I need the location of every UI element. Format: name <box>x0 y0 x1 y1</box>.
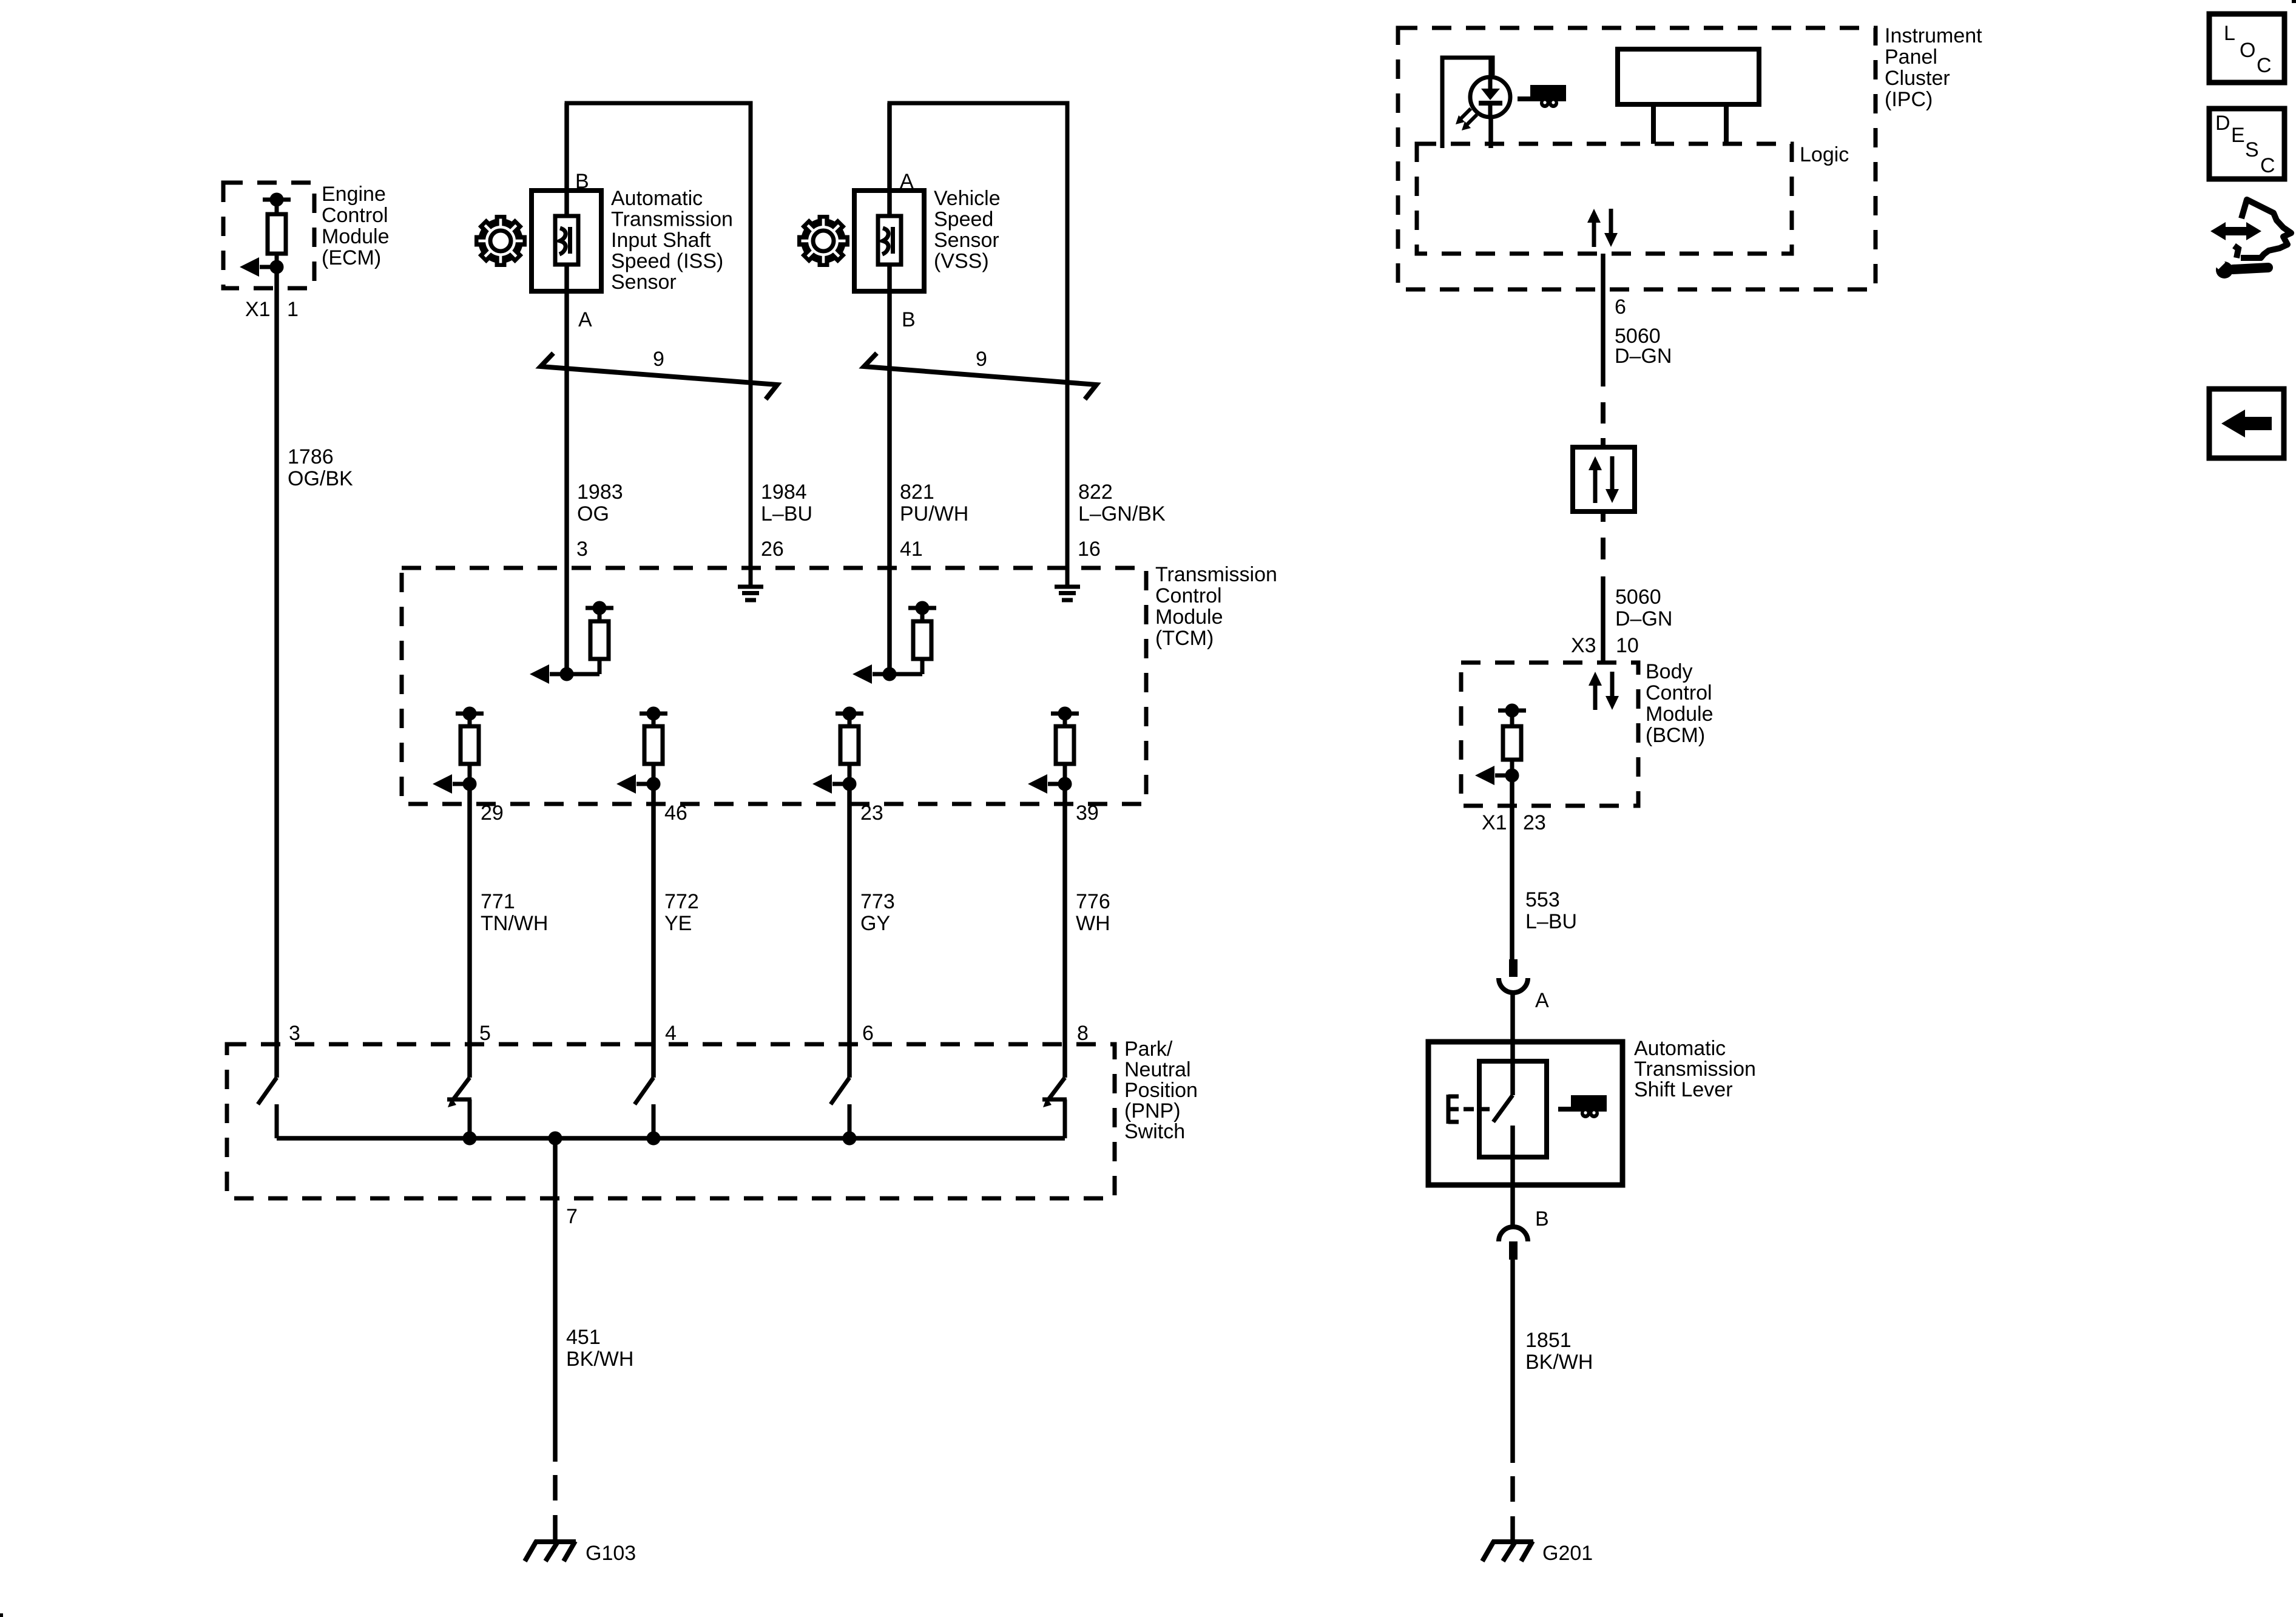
TCM dashed box <box>402 568 1146 804</box>
svg-text:C: C <box>2257 54 2272 77</box>
svg-text:Neutral: Neutral <box>1124 1058 1191 1081</box>
resistor inside BCM <box>1475 706 1526 785</box>
light arrows into photodiode <box>1456 109 1477 130</box>
svg-text:S: S <box>2245 138 2259 161</box>
IPC gauge rectangle <box>1618 49 1759 104</box>
ECM dashed box <box>223 183 314 288</box>
svg-text:(IPC): (IPC) <box>1885 88 1933 111</box>
svg-text:Sensor: Sensor <box>611 271 677 294</box>
inline connector B (male pin) <box>1509 1241 1518 1260</box>
svg-text:B: B <box>1535 1207 1549 1230</box>
svg-text:Module: Module <box>322 225 390 248</box>
inline connector B (female half circle) <box>1499 1227 1528 1241</box>
svg-text:D: D <box>2215 112 2230 135</box>
svg-text:YE: YE <box>664 912 692 935</box>
svg-text:9: 9 <box>653 348 664 371</box>
wire 5060 D-GN to BCM X3 10 <box>1601 576 1606 663</box>
resistor inside TCM at pin 3 <box>530 603 613 684</box>
svg-text:X1: X1 <box>1482 811 1507 834</box>
svg-text:G103: G103 <box>586 1542 636 1565</box>
switch contact PNP pin 3 <box>258 1078 277 1138</box>
page mark bottom left <box>0 1613 3 1617</box>
wire through photodiode <box>1488 58 1493 148</box>
PNP common bus wire <box>277 1136 1065 1141</box>
svg-text:1983: 1983 <box>577 481 623 504</box>
svg-text:BK/WH: BK/WH <box>1525 1351 1593 1374</box>
dashed wire to G201 <box>1510 1463 1515 1541</box>
wire 776 WH from TCM 39 to PNP 8 <box>1062 784 1067 1078</box>
junction dot bus/pin6 <box>845 1133 854 1143</box>
mechanical linkage symbol E <box>1448 1095 1490 1124</box>
Logic dashed box <box>1417 144 1792 254</box>
svg-text:E: E <box>2231 124 2245 147</box>
svg-text:D–GN: D–GN <box>1615 607 1672 630</box>
svg-text:23: 23 <box>860 802 883 825</box>
photodiode triangle and cathode <box>1481 89 1500 100</box>
svg-text:Control: Control <box>1155 584 1222 607</box>
gauge legs <box>1651 104 1656 144</box>
svg-text:C: C <box>2260 154 2275 177</box>
photo sensor housing <box>1442 58 1493 148</box>
svg-text:(PNP): (PNP) <box>1124 1099 1181 1122</box>
shift lever switch inner box <box>1479 1061 1547 1157</box>
svg-text:Speed: Speed <box>934 208 993 231</box>
svg-text:TN/WH: TN/WH <box>481 912 548 935</box>
back arrow icon box <box>2209 389 2284 458</box>
wire 451 BK/WH from PNP pin 7 <box>553 1138 558 1462</box>
resistor inside TCM at pin 41 <box>853 603 936 684</box>
svg-text:821: 821 <box>900 481 934 504</box>
double arrow + hand + wrench icon <box>2210 200 2291 279</box>
svg-text:9: 9 <box>976 348 987 371</box>
LOC icon box <box>2209 14 2284 83</box>
switch contact PNP pin 4 <box>635 1078 653 1138</box>
switch contact PNP pin 8 <box>1042 1078 1067 1138</box>
svg-text:Instrument: Instrument <box>1885 24 1982 47</box>
svg-text:Automatic: Automatic <box>1634 1037 1726 1060</box>
wire ISS loop top and right side (1984) <box>567 103 751 586</box>
wire ISS pin B loop vertical <box>564 103 569 674</box>
wire VSS pin A loop vertical (821) <box>887 103 892 674</box>
svg-text:5060: 5060 <box>1615 586 1661 609</box>
resistor inside TCM above pin 46 <box>616 709 667 794</box>
gear icon (VSS) <box>797 215 849 267</box>
svg-text:Control: Control <box>322 204 388 227</box>
wire 771 TN/WH from TCM 29 to PNP 5 <box>467 784 472 1078</box>
wire 773 GY from TCM 23 to PNP 6 <box>847 784 852 1078</box>
svg-text:L–BU: L–BU <box>1525 910 1577 933</box>
VSS sensor box <box>854 191 924 291</box>
svg-text:O: O <box>2240 39 2255 62</box>
page mark top right <box>2292 0 2296 3</box>
svg-text:39: 39 <box>1076 802 1099 825</box>
svg-text:772: 772 <box>664 890 699 913</box>
wire 1851 BK/WH <box>1510 1260 1515 1463</box>
svg-text:Transmission: Transmission <box>1155 563 1277 586</box>
svg-text:Module: Module <box>1646 703 1714 726</box>
svg-text:1984: 1984 <box>761 481 807 504</box>
svg-text:Engine: Engine <box>322 183 386 206</box>
svg-text:3: 3 <box>576 538 588 561</box>
wire 772 YE from TCM 46 to PNP 4 <box>651 784 656 1078</box>
svg-text:G201: G201 <box>1542 1542 1593 1565</box>
svg-text:29: 29 <box>481 802 504 825</box>
Automatic Transmission Shift Lever box <box>1428 1042 1622 1185</box>
gear icon (ISS) <box>474 215 527 267</box>
svg-text:Switch: Switch <box>1124 1120 1185 1143</box>
svg-text:1851: 1851 <box>1525 1329 1572 1352</box>
dashed wire to G103 <box>553 1462 558 1541</box>
svg-text:Transmission: Transmission <box>1634 1058 1756 1081</box>
svg-text:WH: WH <box>1076 912 1110 935</box>
ground symbol inside TCM (pin 26) <box>738 587 763 600</box>
svg-text:(ECM): (ECM) <box>322 246 381 269</box>
twisted pair symbol 9 (ISS wires) <box>541 353 777 399</box>
twisted pair symbol 9 (VSS wires) <box>864 353 1096 399</box>
svg-text:OG: OG <box>577 502 609 525</box>
shift lever switch lower contact <box>1510 1126 1515 1185</box>
svg-text:(BCM): (BCM) <box>1646 724 1705 747</box>
svg-text:Shift Lever: Shift Lever <box>1634 1078 1733 1101</box>
svg-text:553: 553 <box>1525 888 1560 911</box>
svg-text:8: 8 <box>1077 1022 1089 1045</box>
inline connector A (male pin) <box>1509 959 1518 977</box>
svg-text:Control: Control <box>1646 681 1712 704</box>
svg-text:L–GN/BK: L–GN/BK <box>1078 502 1166 525</box>
wire 553 L-BU from BCM X1 23 <box>1510 778 1514 959</box>
svg-text:451: 451 <box>566 1326 601 1349</box>
svg-text:3: 3 <box>289 1022 300 1045</box>
wire into shift lever switch <box>1510 1044 1515 1095</box>
svg-text:A: A <box>900 170 914 193</box>
inline connector A (female half circle) <box>1499 978 1528 993</box>
trailer icon (IPC odometer) <box>1518 85 1566 108</box>
svg-text:(TCM): (TCM) <box>1155 627 1214 650</box>
svg-text:Position: Position <box>1124 1079 1198 1102</box>
switch contact PNP pin 6 <box>831 1078 849 1138</box>
svg-text:4: 4 <box>665 1022 677 1045</box>
svg-text:L: L <box>2224 22 2235 45</box>
svg-text:41: 41 <box>900 538 923 561</box>
svg-text:5: 5 <box>479 1022 491 1045</box>
serial data arrows inside Logic <box>1587 209 1618 247</box>
ISS sensor box <box>532 191 601 291</box>
svg-text:Input Shaft: Input Shaft <box>611 229 711 252</box>
svg-text:7: 7 <box>566 1205 578 1228</box>
svg-text:Speed (ISS): Speed (ISS) <box>611 250 723 273</box>
wire from shift lever to connector B <box>1510 1185 1515 1227</box>
svg-text:Body: Body <box>1646 660 1693 683</box>
ground G201 symbol <box>1482 1541 1533 1561</box>
svg-text:26: 26 <box>761 538 784 561</box>
svg-text:Cluster: Cluster <box>1885 67 1950 90</box>
svg-text:Logic: Logic <box>1800 143 1849 166</box>
svg-text:B: B <box>902 308 916 331</box>
wire from connector A to shift lever <box>1510 993 1515 1044</box>
resistor inside TCM above pin 23 <box>812 709 863 794</box>
svg-text:L–BU: L–BU <box>761 502 812 525</box>
svg-text:BK/WH: BK/WH <box>566 1348 633 1371</box>
arrows inside serial data link box <box>1589 456 1619 503</box>
DESC icon box <box>2209 109 2284 179</box>
svg-text:Sensor: Sensor <box>934 229 999 252</box>
svg-text:6: 6 <box>862 1022 874 1045</box>
svg-text:771: 771 <box>481 890 515 913</box>
ground symbol inside TCM (pin 16) <box>1055 587 1080 600</box>
svg-text:Automatic: Automatic <box>611 187 703 210</box>
svg-text:Transmission: Transmission <box>611 208 733 231</box>
svg-text:PU/WH: PU/WH <box>900 502 968 525</box>
svg-text:Vehicle: Vehicle <box>934 187 1001 210</box>
IPC dashed box <box>1398 28 1876 289</box>
svg-text:Park/: Park/ <box>1124 1038 1173 1061</box>
svg-text:X3: X3 <box>1571 634 1596 657</box>
trailer icon (shift lever) <box>1558 1095 1607 1118</box>
svg-text:6: 6 <box>1615 295 1626 319</box>
svg-text:10: 10 <box>1616 634 1639 657</box>
svg-text:GY: GY <box>860 912 890 935</box>
serial data link box <box>1573 447 1635 511</box>
ground G103 symbol <box>525 1541 576 1561</box>
wire 5060 D-GN from IPC pin 6 <box>1601 254 1606 387</box>
shift lever switch blade <box>1493 1095 1513 1122</box>
dashed wire from splice box <box>1601 511 1606 522</box>
resistor inside ECM <box>240 195 291 277</box>
svg-text:776: 776 <box>1076 890 1110 913</box>
PNP dashed box <box>227 1044 1115 1198</box>
svg-text:(VSS): (VSS) <box>934 250 989 273</box>
svg-text:A: A <box>578 308 592 331</box>
wire VSS loop top and right side (822) <box>890 103 1067 586</box>
dashed wire to splice box <box>1601 402 1606 424</box>
svg-text:A: A <box>1535 989 1549 1012</box>
svg-text:B: B <box>575 170 589 193</box>
svg-text:OG/BK: OG/BK <box>288 467 353 490</box>
svg-text:Module: Module <box>1155 606 1223 629</box>
svg-text:1786: 1786 <box>288 445 334 468</box>
junction dot bus/pin4 <box>649 1133 658 1143</box>
resistor inside TCM above pin 39 <box>1028 709 1079 794</box>
svg-text:822: 822 <box>1078 481 1113 504</box>
svg-text:773: 773 <box>860 890 895 913</box>
photodiode circle <box>1470 77 1510 117</box>
wire 1786 OG/BK from ECM pin 1 to PNP pin 3 <box>274 269 279 1078</box>
svg-text:Panel: Panel <box>1885 46 1937 69</box>
BCM dashed box <box>1461 663 1638 806</box>
switch contact PNP pin 5 <box>447 1078 471 1138</box>
svg-text:23: 23 <box>1523 811 1546 834</box>
serial data arrows inside BCM <box>1589 672 1619 710</box>
junction dot bus/pin5 <box>465 1133 474 1143</box>
resistor inside TCM above pin 29 <box>433 709 484 794</box>
svg-text:1: 1 <box>287 298 299 321</box>
junction dot bus/wire7 <box>550 1133 560 1143</box>
svg-text:X1: X1 <box>245 298 271 321</box>
svg-text:D–GN: D–GN <box>1615 345 1672 368</box>
svg-text:16: 16 <box>1078 538 1101 561</box>
svg-text:46: 46 <box>664 802 687 825</box>
